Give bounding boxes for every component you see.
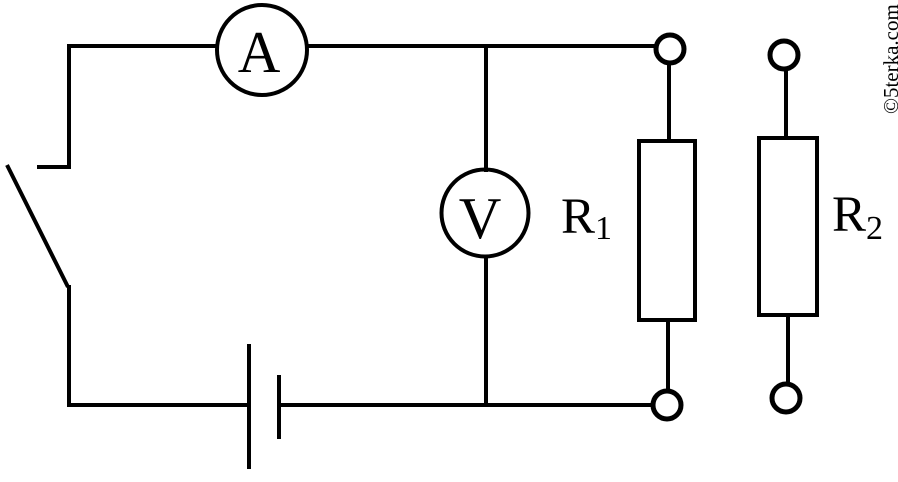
wire: left vertical upper segment — [67, 44, 71, 167]
switch S1 fixed contact tick — [37, 165, 71, 169]
resistor R2 body — [759, 138, 817, 315]
svg-text:R1: R1 — [561, 189, 612, 247]
wire: R1 top terminal to resistor — [667, 63, 671, 141]
wire: top horizontal, left corner to ammeter — [67, 44, 217, 48]
wire: bottom horizontal, left corner to battery — [67, 403, 247, 407]
wire: R2 top terminal to resistor — [784, 69, 788, 138]
node: R1 bottom terminal — [653, 391, 681, 419]
svg-text:A: A — [238, 19, 281, 85]
voltmeter V — [442, 170, 529, 257]
svg-text:V: V — [459, 185, 502, 251]
battery short plate (-) — [277, 375, 281, 439]
switch S1 blade (open) — [7, 165, 68, 287]
battery long plate (+) — [247, 344, 251, 469]
wire: voltmeter branch upper — [484, 46, 488, 172]
wire: R1 resistor to bottom terminal — [666, 320, 670, 392]
node: R2 top terminal — [770, 41, 798, 69]
wire: voltmeter branch lower — [484, 255, 488, 405]
node: R2 bottom terminal — [772, 384, 800, 412]
wire: R2 resistor to bottom terminal — [786, 315, 790, 384]
wire: bottom horizontal, battery to R1 bottom terminal — [281, 403, 653, 407]
svg-text:©5terka.com: ©5terka.com — [879, 4, 898, 114]
svg-text:R2: R2 — [832, 187, 883, 247]
node: R1 top terminal — [656, 35, 684, 63]
wire: left vertical lower segment — [67, 285, 71, 407]
ammeter A — [217, 5, 307, 95]
wire: top horizontal, ammeter to R1 top terminal — [307, 44, 655, 48]
resistor R1 body — [639, 141, 695, 320]
